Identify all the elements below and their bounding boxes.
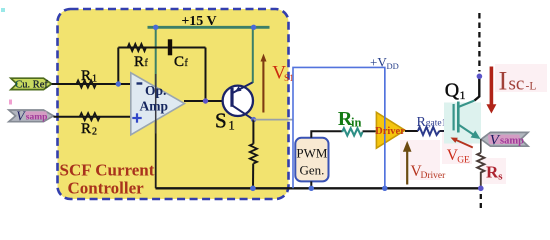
svg-text:in: in <box>351 115 361 129</box>
svg-text:samp: samp <box>26 113 48 123</box>
svg-text:-L: -L <box>526 81 537 93</box>
resistor S1 emitter resistor <box>250 144 257 164</box>
resistor Rgate1 <box>418 127 440 135</box>
node Rs ground <box>478 186 484 192</box>
wire op-amp output <box>184 100 232 102</box>
svg-text:s: s <box>498 171 503 183</box>
wire gate <box>439 130 453 132</box>
svg-text:1: 1 <box>92 73 97 84</box>
SCF controller dashed box <box>58 9 289 199</box>
svg-text:Op.: Op. <box>145 83 166 98</box>
svg-text:Driver: Driver <box>375 126 405 137</box>
svg-text:R: R <box>81 121 91 137</box>
wire feedback left vertical <box>117 48 119 85</box>
wire VS1 node to VDD line (gray) <box>254 119 293 121</box>
node VDD-ground <box>382 186 387 191</box>
svg-text:2: 2 <box>92 126 97 137</box>
wire S1 collector down <box>252 120 254 144</box>
op-amp power wire vertical <box>155 86 157 188</box>
svg-text:samp: samp <box>500 136 524 147</box>
wire resistor to rail <box>252 164 254 189</box>
VDriver arrow <box>406 150 408 185</box>
resistor R1 <box>77 80 97 87</box>
svg-text:gate1: gate1 <box>426 119 447 129</box>
resistor Rs <box>477 153 484 178</box>
resistor Rin <box>342 128 362 135</box>
wire R2 row <box>54 116 132 118</box>
arrow VGE <box>455 140 473 148</box>
svg-text:sc: sc <box>509 74 525 95</box>
node collector dashed junction <box>477 74 483 80</box>
input arrow Cu.Ref <box>11 78 52 89</box>
+15V rail <box>148 26 270 29</box>
node PWM ground <box>309 186 314 191</box>
wire Rs to rail <box>480 178 482 189</box>
wire PWM output <box>311 131 342 138</box>
wire feedback right vertical <box>205 48 207 102</box>
transistor S1 <box>223 86 253 116</box>
arrow VS1 <box>262 61 264 113</box>
svg-text:+15 V: +15 V <box>181 14 216 29</box>
wire emitter to Rs <box>480 139 482 153</box>
resistor R2 <box>80 113 100 120</box>
svg-text:SCF Current: SCF Current <box>60 161 155 180</box>
wire +15V drop to op-amp <box>155 27 157 87</box>
svg-text:R: R <box>486 163 499 182</box>
svg-text:I: I <box>499 66 508 96</box>
edge mark cyan <box>1 8 5 12</box>
node inverting input <box>116 81 121 86</box>
svg-text:1: 1 <box>460 88 466 102</box>
svg-text:R: R <box>81 68 91 84</box>
PWM generator box <box>295 138 328 182</box>
node rail under S1 <box>250 186 256 192</box>
output arrow Vsamp-right <box>481 132 528 146</box>
capacitor Cf <box>168 39 172 55</box>
svg-text:Amp: Amp <box>140 99 169 114</box>
svg-text:GE: GE <box>457 156 470 166</box>
wire VDD through driver <box>384 67 386 188</box>
svg-text:+V: +V <box>370 54 387 69</box>
svg-text:DD: DD <box>387 61 399 71</box>
node output junction <box>203 98 208 103</box>
wire R1 row <box>52 83 131 85</box>
svg-text:PWM: PWM <box>296 146 328 161</box>
IGBT Q1 <box>444 103 481 144</box>
node +15V-right <box>251 25 256 30</box>
svg-text:Cu. Ref: Cu. Ref <box>15 80 48 91</box>
svg-text:S: S <box>215 109 227 133</box>
svg-text:Controller: Controller <box>68 179 145 198</box>
wire feedback top <box>118 47 168 49</box>
edge mark pink <box>9 100 12 105</box>
ground rail wire <box>156 187 482 189</box>
wire Rin to driver <box>363 130 377 132</box>
input arrow Vsamp-left <box>9 110 54 122</box>
node +15V-left <box>153 25 158 30</box>
wire PWM to rail <box>310 181 312 188</box>
svg-text:Q: Q <box>445 80 460 102</box>
svg-text:R: R <box>134 54 144 70</box>
driver amp <box>376 112 405 148</box>
wire Q1 collector <box>475 74 480 101</box>
wire driver output <box>405 130 418 132</box>
svg-text:Driver: Driver <box>421 171 447 181</box>
+VDD supply wire <box>293 67 385 188</box>
resistor Rf <box>128 44 146 51</box>
svg-text:C: C <box>174 54 184 70</box>
op-amp U1 <box>131 73 185 135</box>
node S1 collector <box>251 117 256 122</box>
svg-text:Gen.: Gen. <box>299 163 324 178</box>
wire +15V drop to S1 <box>252 27 254 83</box>
arrow Isc-L <box>490 67 494 106</box>
svg-text:1: 1 <box>229 119 235 133</box>
wire load dashed top <box>478 13 480 72</box>
wire dashed bottom <box>480 194 482 209</box>
